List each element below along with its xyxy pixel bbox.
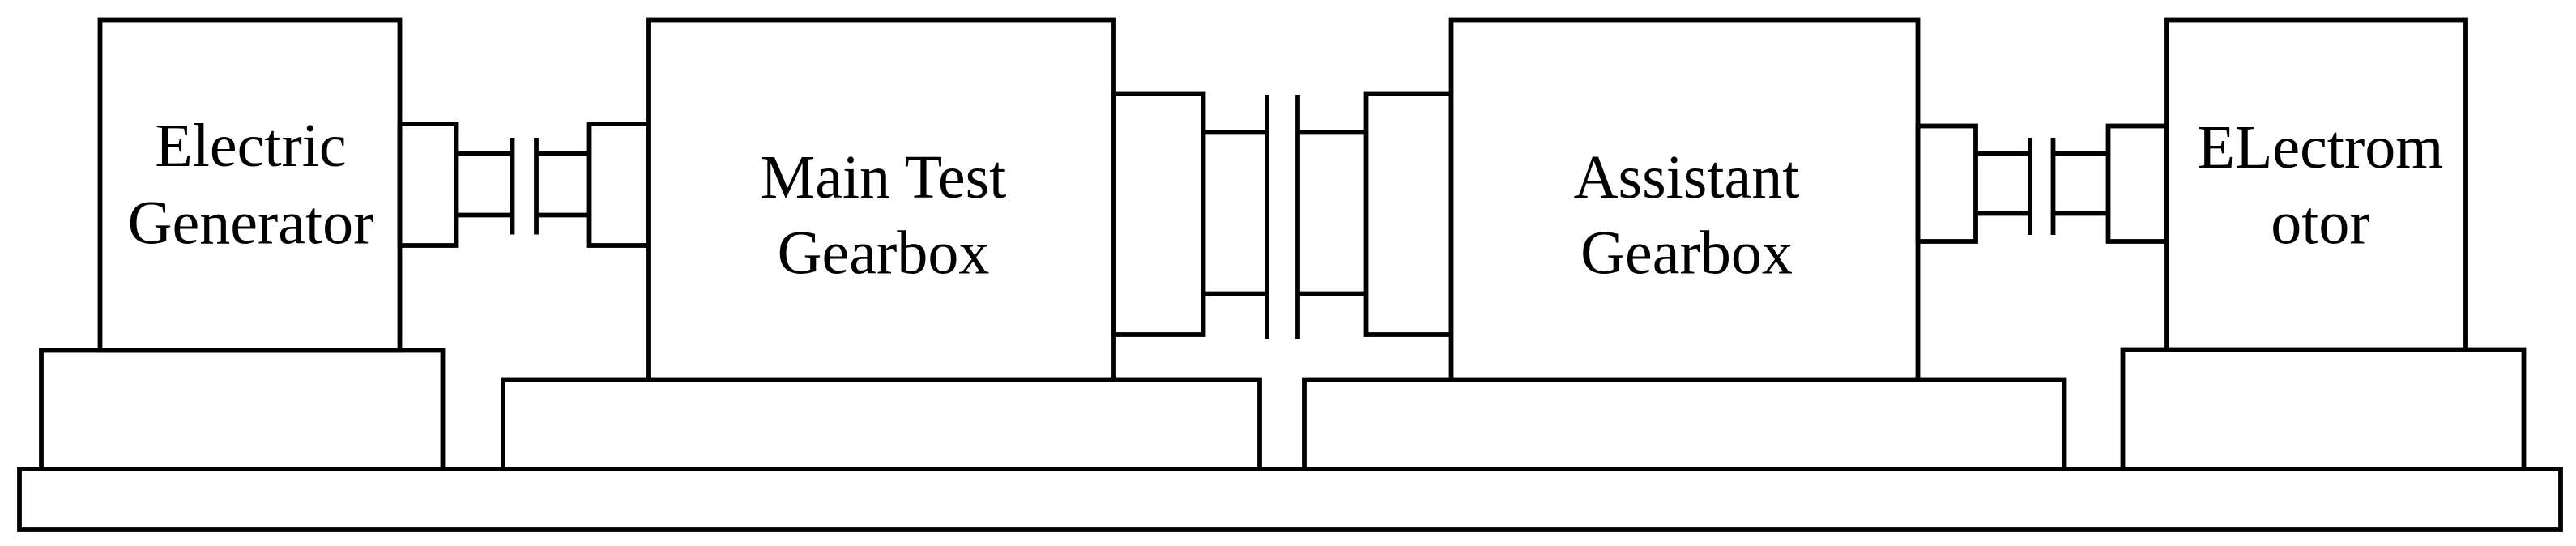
coupling 3 disc left	[2028, 138, 2032, 235]
electromotor pedestal	[2123, 350, 2524, 470]
svg-text:Assistant: Assistant	[1574, 143, 1800, 211]
coupling 1 shaft lower left	[457, 213, 513, 218]
coupling 2 shaft lower left	[1204, 292, 1268, 296]
electromotor box	[2167, 20, 2466, 350]
coupling 3 disc right	[2051, 138, 2056, 235]
svg-text:Gearbox: Gearbox	[1580, 220, 1793, 288]
coupling 2 shaft upper right	[1298, 130, 1367, 135]
electric generator box	[100, 20, 400, 351]
svg-text:ELectrom: ELectrom	[2198, 113, 2444, 181]
coupling 2 disc left	[1265, 95, 1269, 339]
coupling 3 shaft upper right	[2054, 151, 2109, 156]
coupling 1 disc right	[534, 138, 539, 235]
svg-text:Gearbox: Gearbox	[778, 220, 990, 288]
coupling 3 shaft lower right	[2054, 211, 2109, 216]
coupling 3 shaft upper left	[1976, 151, 2030, 156]
coupling 1 disc left	[510, 138, 515, 235]
coupling 1 flange right	[590, 124, 650, 245]
svg-text:Electric: Electric	[155, 112, 346, 180]
coupling 1 flange left	[400, 124, 457, 245]
coupling 3 flange right	[2109, 126, 2168, 242]
coupling 1 shaft upper left	[457, 151, 513, 156]
coupling 2 flange left	[1114, 94, 1204, 335]
base plate	[19, 469, 2561, 530]
coupling 2 flange right	[1367, 94, 1452, 335]
svg-text:Main Test: Main Test	[761, 143, 1007, 211]
coupling 2 shaft lower right	[1298, 292, 1367, 296]
coupling 2 shaft upper left	[1204, 130, 1268, 135]
main test gearbox pedestal	[503, 380, 1260, 470]
coupling 2 disc right	[1295, 95, 1300, 339]
coupling 3 shaft lower left	[1976, 211, 2030, 216]
svg-text:otor: otor	[2271, 190, 2369, 258]
assistant gearbox pedestal	[1304, 380, 2065, 470]
svg-text:Generator: Generator	[128, 190, 374, 258]
coupling 1 shaft lower right	[536, 213, 590, 218]
generator pedestal	[41, 351, 443, 470]
coupling 3 flange left	[1918, 126, 1977, 242]
coupling 1 shaft upper right	[536, 151, 590, 156]
assistant gearbox box	[1452, 20, 1918, 380]
main test gearbox box	[649, 20, 1114, 380]
